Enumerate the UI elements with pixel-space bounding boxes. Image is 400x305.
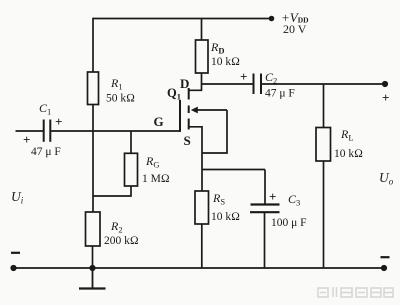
wire RG bottom lead bbox=[93, 186, 132, 196]
svg-text:RS: RS bbox=[212, 191, 225, 207]
wire RD bottom to C2 bbox=[202, 83, 254, 85]
wire R1 top lead bbox=[92, 18, 94, 72]
svg-text:47 μ F: 47 μ F bbox=[265, 88, 295, 100]
svg-text:Ui: Ui bbox=[11, 189, 24, 206]
resistor R2 bbox=[86, 212, 101, 246]
wire R2 bottom lead bbox=[92, 246, 94, 268]
wire source lead bbox=[189, 127, 202, 191]
resistor R1 bbox=[88, 72, 99, 105]
ground bbox=[79, 268, 106, 289]
svg-text:RL: RL bbox=[340, 127, 354, 143]
watermark bbox=[318, 287, 393, 297]
wire C3 bottom lead bbox=[264, 212, 266, 268]
wire R1 bottom lead bbox=[92, 105, 94, 132]
wire C3 top lead bbox=[264, 170, 266, 205]
node +VDD terminal dot bbox=[269, 16, 275, 22]
svg-text:G: G bbox=[154, 114, 164, 129]
svg-text:50 kΩ: 50 kΩ bbox=[106, 93, 135, 105]
svg-text:+: + bbox=[23, 132, 30, 147]
wire C1 to gate bbox=[50, 130, 180, 132]
svg-text:R2: R2 bbox=[110, 219, 123, 235]
svg-text:200 kΩ: 200 kΩ bbox=[104, 235, 139, 247]
svg-text:C1: C1 bbox=[39, 101, 51, 117]
svg-text:Uo: Uo bbox=[379, 170, 394, 187]
label input minus bbox=[11, 252, 20, 254]
wire source node to C3 bbox=[202, 169, 265, 171]
wire RD top lead bbox=[201, 19, 203, 41]
transistor Q1 gate bar bbox=[179, 100, 181, 132]
svg-text:RD: RD bbox=[210, 40, 224, 56]
wire drain lead bbox=[189, 73, 202, 90]
svg-text:D: D bbox=[180, 76, 189, 91]
svg-text:10 kΩ: 10 kΩ bbox=[211, 56, 240, 68]
node ground junction dot bbox=[89, 265, 95, 271]
svg-text:Q1: Q1 bbox=[167, 86, 181, 102]
resistor RS bbox=[195, 191, 209, 224]
wire RG top lead bbox=[130, 131, 132, 153]
wire bottom rail bbox=[14, 267, 385, 269]
wire input lead bbox=[16, 130, 44, 132]
svg-text:47 μ F: 47 μ F bbox=[31, 146, 61, 158]
svg-text:+: + bbox=[55, 114, 62, 129]
wire top supply rail bbox=[93, 18, 272, 20]
transistor Q1 channel dashes bbox=[188, 88, 190, 130]
svg-text:20 V: 20 V bbox=[283, 22, 307, 36]
svg-text:+: + bbox=[382, 90, 389, 105]
resistor RL bbox=[316, 128, 331, 162]
svg-text:C3: C3 bbox=[288, 192, 300, 208]
svg-text:1 MΩ: 1 MΩ bbox=[142, 173, 170, 185]
svg-text:RG: RG bbox=[145, 154, 159, 170]
svg-text:10 kΩ: 10 kΩ bbox=[211, 211, 240, 223]
svg-text:S: S bbox=[184, 133, 191, 148]
resistor RG bbox=[125, 153, 138, 186]
svg-text:100 μ F: 100 μ F bbox=[271, 217, 307, 229]
wire bias divider branch bbox=[92, 131, 94, 212]
resistor RD bbox=[196, 40, 209, 73]
capacitor C2 bbox=[254, 74, 262, 95]
wire RS bottom lead bbox=[201, 224, 203, 268]
svg-text:10 kΩ: 10 kΩ bbox=[334, 148, 363, 160]
wire RL bottom lead bbox=[323, 161, 325, 268]
wire C2 to output bbox=[261, 83, 385, 85]
label output minus bbox=[381, 256, 390, 258]
node input minus terminal dot bbox=[10, 265, 16, 271]
svg-text:+: + bbox=[269, 189, 276, 204]
node output minus terminal dot bbox=[381, 265, 387, 271]
svg-text:R1: R1 bbox=[110, 76, 123, 92]
wire substrate to source loop bbox=[202, 110, 227, 153]
node output plus terminal dot bbox=[382, 81, 388, 87]
capacitor C1 bbox=[44, 120, 51, 142]
svg-text:+: + bbox=[240, 69, 247, 84]
transistor Q1 substrate arrow bbox=[191, 107, 227, 114]
wire RL top lead bbox=[323, 84, 325, 128]
capacitor C3 bbox=[250, 205, 280, 213]
